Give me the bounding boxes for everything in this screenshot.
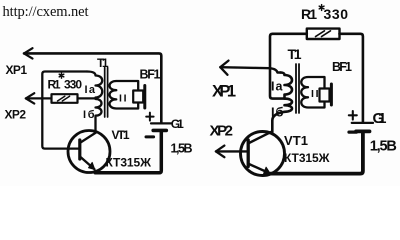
svg-text:VТ1: VТ1 <box>284 133 308 148</box>
svg-text:G1: G1 <box>373 110 387 127</box>
svg-text:1,5В: 1,5В <box>370 138 397 154</box>
svg-text:VТ1: VТ1 <box>112 128 130 142</box>
svg-text:Iа: Iа <box>271 80 284 94</box>
svg-text:Iб: Iб <box>271 105 284 120</box>
svg-text:КТ315Ж: КТ315Ж <box>284 151 330 165</box>
svg-text:330: 330 <box>64 78 82 92</box>
svg-text:R1: R1 <box>48 78 61 92</box>
svg-text:http://cxem.net: http://cxem.net <box>3 4 89 20</box>
svg-text:Iб: Iб <box>83 109 95 121</box>
svg-text:ХР2: ХР2 <box>5 108 27 122</box>
svg-text:BF1: BF1 <box>140 68 161 82</box>
svg-text:R1: R1 <box>301 6 317 22</box>
svg-text:ХР1: ХР1 <box>6 63 28 77</box>
svg-text:Т1: Т1 <box>288 46 302 62</box>
svg-text:КТ315Ж: КТ315Ж <box>106 156 152 170</box>
svg-text:G1: G1 <box>171 117 184 131</box>
svg-text:1,5В: 1,5В <box>171 142 193 156</box>
svg-text:Iа: Iа <box>85 84 96 96</box>
svg-text:II: II <box>119 93 127 105</box>
svg-text:BF1: BF1 <box>332 60 352 74</box>
svg-text:Т1: Т1 <box>97 56 109 70</box>
svg-text:330: 330 <box>324 6 349 22</box>
svg-text:ХР2: ХР2 <box>210 123 234 140</box>
svg-text:II: II <box>311 88 319 100</box>
svg-text:ХР1: ХР1 <box>212 83 236 101</box>
